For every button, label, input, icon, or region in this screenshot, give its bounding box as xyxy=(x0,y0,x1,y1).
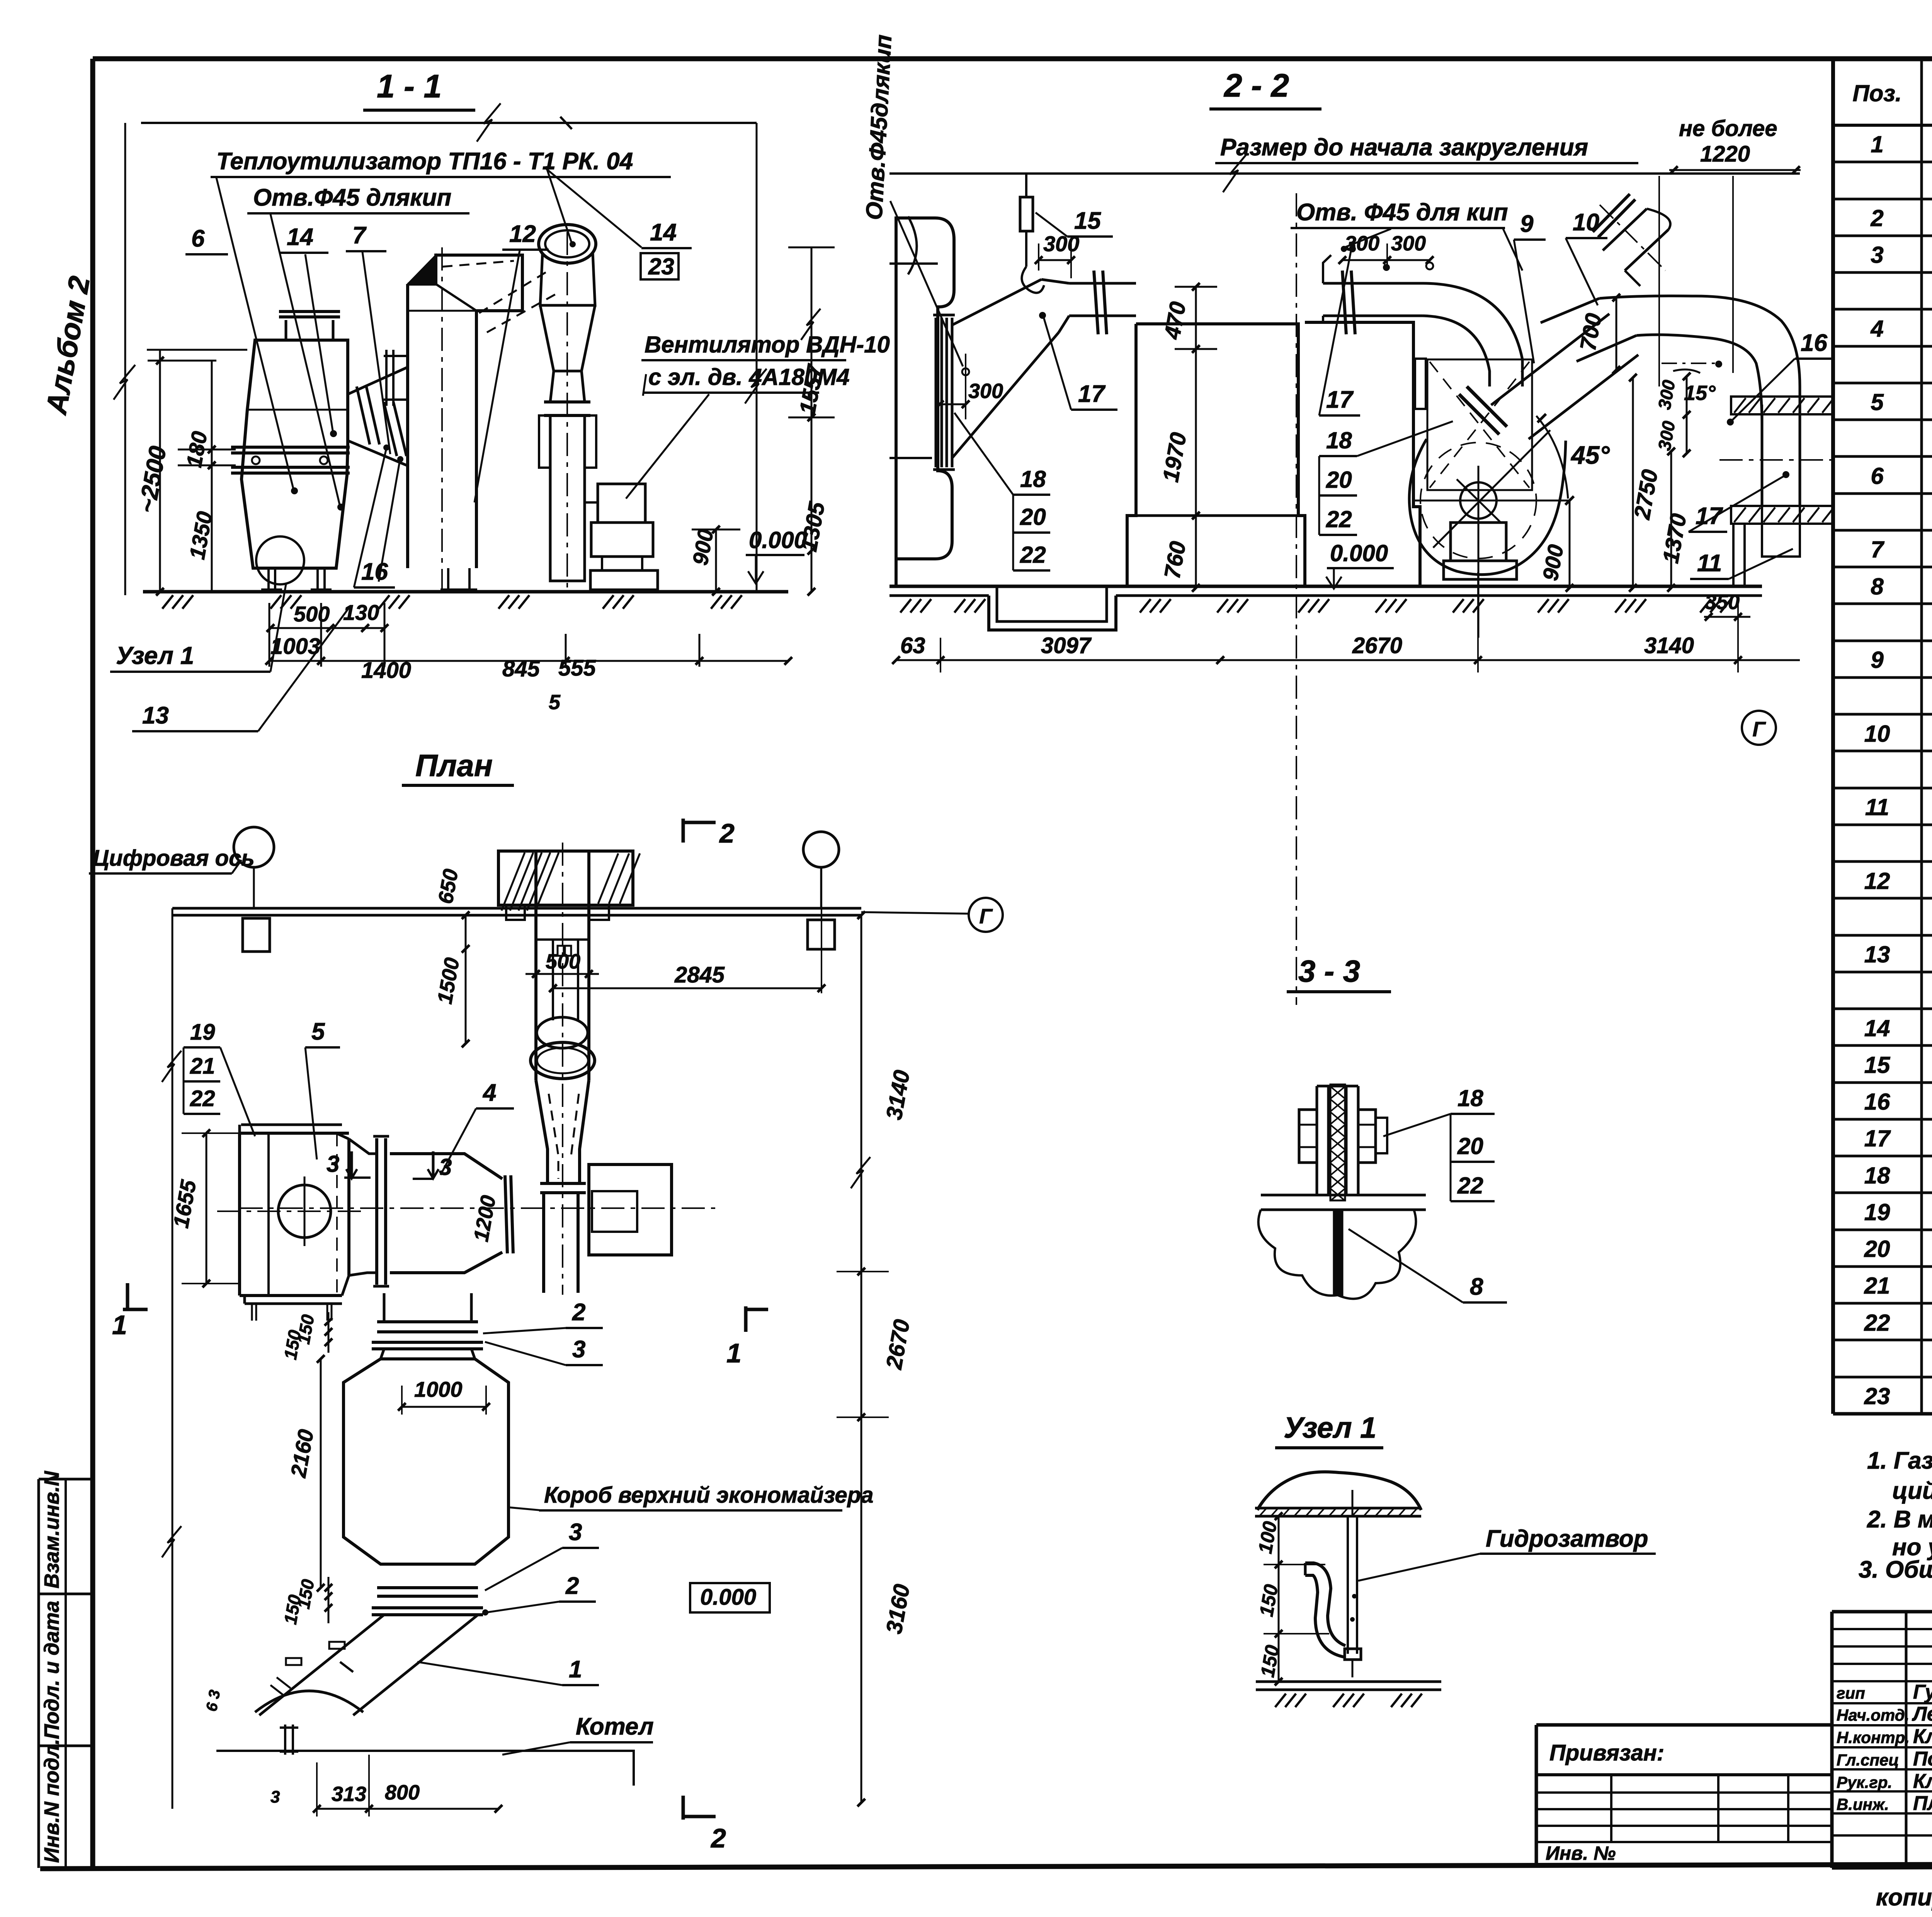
plan economizer octagon xyxy=(344,1359,509,1564)
svg-text:9: 9 xyxy=(1520,211,1534,237)
svg-text:1. Газоходы подлежат теплоизол: 1. Газоходы подлежат теплоизоляции. Ведо… xyxy=(1867,1447,1932,1474)
svg-text:17: 17 xyxy=(1078,381,1105,407)
svg-text:14: 14 xyxy=(650,219,677,246)
svg-text:1: 1 xyxy=(1871,131,1883,157)
notes xyxy=(1859,1447,1932,1583)
svg-text:3 - 3: 3 - 3 xyxy=(1298,954,1360,988)
ground line xyxy=(143,590,788,594)
svg-text:7: 7 xyxy=(1871,536,1884,562)
svg-text:2: 2 xyxy=(710,1823,726,1853)
svg-text:В.инж.: В.инж. xyxy=(1837,1795,1889,1813)
svg-text:23: 23 xyxy=(1864,1383,1890,1409)
svg-text:4: 4 xyxy=(482,1079,496,1106)
svg-text:Гусева: Гусева xyxy=(1913,1681,1932,1703)
svg-text:23: 23 xyxy=(648,254,674,279)
svg-text:17: 17 xyxy=(1864,1125,1891,1151)
svg-text:3: 3 xyxy=(327,1151,339,1177)
svg-text:3140: 3140 xyxy=(1644,633,1694,658)
svg-text:Размер до начала закругления: Размер до начала закругления xyxy=(1220,134,1588,161)
plan machine box xyxy=(240,1133,349,1296)
svg-text:Теплоутилизатор ТП16 - Т1 РК.: Теплоутилизатор ТП16 - Т1 РК. 04 xyxy=(216,148,633,175)
svg-text:22: 22 xyxy=(1020,542,1046,568)
dome cap xyxy=(1257,1472,1421,1510)
section 1-1 xyxy=(110,68,890,731)
svg-text:10: 10 xyxy=(1864,721,1890,747)
svg-text:800: 800 xyxy=(385,1781,420,1804)
svg-text:20: 20 xyxy=(1020,504,1046,530)
svg-text:16: 16 xyxy=(361,558,388,585)
svg-text:3: 3 xyxy=(569,1519,582,1546)
fan and motor xyxy=(539,225,596,263)
teploutilizator body xyxy=(241,340,348,568)
svg-text:Котел: Котел xyxy=(576,1713,654,1740)
diagonal duct xyxy=(1478,342,1604,398)
wall strips xyxy=(1731,397,1833,414)
svg-text:10: 10 xyxy=(1573,209,1599,236)
svg-text:3. Общая масса 2423 кг: 3. Общая масса 2423 кг xyxy=(1859,1556,1932,1583)
svg-text:не более: не более xyxy=(1679,116,1777,141)
svg-text:22: 22 xyxy=(1326,506,1352,532)
svg-text:2: 2 xyxy=(719,818,735,848)
svg-text:2670: 2670 xyxy=(1352,633,1402,658)
svg-text:300: 300 xyxy=(968,380,1003,403)
svg-text:16: 16 xyxy=(1864,1089,1890,1115)
svg-text:Гидрозатвор: Гидрозатвор xyxy=(1486,1525,1648,1552)
svg-text:Вентилятор ВДН-10: Вентилятор ВДН-10 xyxy=(645,332,890,358)
svg-text:18: 18 xyxy=(1458,1085,1483,1111)
svg-text:130: 130 xyxy=(343,600,379,625)
svg-text:16: 16 xyxy=(1801,330,1827,356)
privyazan block xyxy=(1536,1725,1832,1865)
svg-text:2. В месте прохода газохода че: 2. В месте прохода газохода через стену … xyxy=(1867,1506,1932,1533)
svg-text:1003: 1003 xyxy=(270,634,320,659)
svg-text:Подл. и дата: Подл. и дата xyxy=(40,1601,63,1739)
svg-text:15: 15 xyxy=(1864,1052,1891,1078)
svg-text:копировал:: копировал: xyxy=(1876,1884,1932,1911)
svg-text:Инв.N подл.: Инв.N подл. xyxy=(40,1739,63,1863)
svg-text:Отв. Ф45 для кип: Отв. Ф45 для кип xyxy=(1296,199,1508,226)
ground 2-2 xyxy=(889,585,1762,588)
svg-text:Поз.: Поз. xyxy=(1852,80,1901,106)
svg-text:13: 13 xyxy=(1864,941,1890,967)
svg-text:20: 20 xyxy=(1326,467,1352,493)
svg-text:0.000: 0.000 xyxy=(700,1585,756,1610)
svg-text:17: 17 xyxy=(1326,386,1354,413)
svg-text:1400: 1400 xyxy=(361,658,411,683)
svg-text:гип: гип xyxy=(1837,1684,1865,1702)
svg-text:313: 313 xyxy=(332,1783,366,1806)
svg-text:11: 11 xyxy=(1697,550,1722,577)
dim 1557 1305 xyxy=(756,123,758,592)
svg-text:20: 20 xyxy=(1864,1236,1890,1262)
svg-text:20: 20 xyxy=(1457,1133,1483,1159)
elbow duct xyxy=(1422,283,1522,386)
chimney xyxy=(534,851,537,1080)
svg-text:11: 11 xyxy=(1865,794,1889,820)
svg-text:Г: Г xyxy=(1752,718,1766,741)
svg-text:0.000: 0.000 xyxy=(749,527,807,553)
svg-text:3: 3 xyxy=(439,1154,452,1180)
bottom annotations xyxy=(1876,1878,1932,1917)
svg-text:Короб верхний экономайзера: Короб верхний экономайзера xyxy=(544,1483,874,1508)
svg-text:6: 6 xyxy=(1871,463,1884,489)
svg-text:18: 18 xyxy=(1326,427,1352,453)
svg-text:6: 6 xyxy=(191,225,205,252)
svg-text:Клоков: Клоков xyxy=(1913,1725,1932,1748)
wall block xyxy=(498,851,633,905)
svg-text:21: 21 xyxy=(190,1054,215,1079)
svg-text:3: 3 xyxy=(270,1788,280,1806)
svg-text:45°: 45° xyxy=(1570,441,1610,469)
svg-text:ций представлена на листе 4: ций представлена на листе 4. xyxy=(1892,1478,1932,1504)
svg-text:15°: 15° xyxy=(1684,381,1716,405)
svg-text:2845: 2845 xyxy=(674,962,725,987)
svg-text:Портной: Портной xyxy=(1913,1748,1932,1770)
uzel 1 detail xyxy=(1254,1411,1656,1707)
svg-text:22: 22 xyxy=(1864,1310,1890,1336)
svg-text:Взам.инв.N: Взам.инв.N xyxy=(40,1471,63,1588)
plan lower flanges xyxy=(377,1586,478,1589)
svg-text:Плинер: Плинер xyxy=(1913,1792,1932,1815)
svg-text:22: 22 xyxy=(1457,1173,1483,1199)
svg-text:5: 5 xyxy=(549,691,561,714)
bottom dims xyxy=(270,627,384,629)
specification table xyxy=(1833,59,1932,1414)
svg-text:14: 14 xyxy=(287,224,313,250)
title block xyxy=(1832,1612,1932,1868)
pit xyxy=(989,596,1116,630)
svg-text:1: 1 xyxy=(726,1338,742,1368)
plan right chain xyxy=(861,915,862,1803)
svg-text:Цифровая ось: Цифровая ось xyxy=(93,846,255,871)
svg-text:22: 22 xyxy=(190,1086,215,1111)
svg-text:500: 500 xyxy=(546,950,580,973)
uzel 1 circle xyxy=(256,536,304,584)
svg-text:План: План xyxy=(415,748,493,783)
economizer boxes xyxy=(1127,324,1305,585)
plan taper duct xyxy=(390,1154,502,1179)
svg-text:19: 19 xyxy=(1864,1199,1890,1225)
svg-text:300: 300 xyxy=(1391,232,1426,255)
svg-text:12: 12 xyxy=(1864,868,1890,894)
inclined duct xyxy=(348,367,408,466)
bolted joint xyxy=(1316,1086,1318,1195)
svg-text:350: 350 xyxy=(1705,591,1740,614)
svg-text:8: 8 xyxy=(1871,574,1884,599)
axis G xyxy=(1742,711,1776,745)
uzel dims xyxy=(1278,1516,1280,1682)
svg-text:15: 15 xyxy=(1074,208,1101,234)
svg-text:555: 555 xyxy=(558,655,596,681)
svg-text:1 - 1: 1 - 1 xyxy=(377,68,442,104)
svg-text:Инв. №: Инв. № xyxy=(1546,1842,1616,1864)
dims 470 1970 760 xyxy=(1195,287,1197,588)
svg-text:5: 5 xyxy=(311,1018,325,1045)
svg-text:8: 8 xyxy=(1470,1273,1483,1300)
svg-text:Клоков: Клоков xyxy=(1913,1770,1932,1793)
svg-text:2: 2 xyxy=(572,1299,585,1326)
svg-text:500: 500 xyxy=(294,602,330,626)
svg-text:2: 2 xyxy=(565,1573,579,1599)
svg-text:300: 300 xyxy=(1043,232,1079,256)
svg-text:Узел 1: Узел 1 xyxy=(1284,1411,1376,1444)
svg-text:845: 845 xyxy=(502,656,540,681)
svg-text:1: 1 xyxy=(569,1656,582,1683)
svg-text:1220: 1220 xyxy=(1700,141,1750,167)
boiler outline xyxy=(896,218,954,559)
seal pipe xyxy=(1347,1516,1349,1654)
svg-text:3: 3 xyxy=(572,1336,585,1363)
svg-text:13: 13 xyxy=(142,702,169,729)
chain dims 2-2 xyxy=(896,659,1800,661)
plan view xyxy=(89,748,1003,1853)
right elbow xyxy=(1599,296,1800,425)
svg-text:21: 21 xyxy=(1864,1273,1890,1299)
svg-text:14: 14 xyxy=(1864,1015,1890,1041)
duct tower xyxy=(408,284,476,568)
svg-text:9: 9 xyxy=(1871,647,1884,673)
dim ~2500 xyxy=(124,123,126,595)
svg-text:0.000: 0.000 xyxy=(1330,540,1388,566)
svg-text:1: 1 xyxy=(112,1310,127,1340)
svg-text:4: 4 xyxy=(1870,316,1883,342)
svg-text:19: 19 xyxy=(190,1020,215,1045)
svg-text:63: 63 xyxy=(900,633,925,658)
svg-text:18: 18 xyxy=(1020,466,1046,492)
svg-text:Г: Г xyxy=(979,905,993,928)
plan dims upper xyxy=(465,915,467,1044)
svg-text:2: 2 xyxy=(1870,205,1883,231)
svg-text:Привязан:: Привязан: xyxy=(1549,1740,1664,1765)
left margin column xyxy=(39,1471,93,1868)
svg-text:Н.контр.: Н.контр. xyxy=(1837,1728,1910,1747)
hanger 15 xyxy=(1025,174,1027,197)
section marker 2 top xyxy=(682,819,685,843)
axis circles xyxy=(234,827,274,867)
svg-text:12: 12 xyxy=(509,221,536,247)
svg-text:Нач.отд.: Нач.отд. xyxy=(1837,1706,1909,1724)
svg-text:5: 5 xyxy=(1871,389,1884,415)
section 3-3 xyxy=(1259,954,1507,1302)
plan flange strip xyxy=(375,1138,378,1285)
svg-text:Отв.Ф45 длякип: Отв.Ф45 длякип xyxy=(253,184,451,211)
plan lower duct xyxy=(259,1615,384,1715)
svg-text:18: 18 xyxy=(1864,1163,1890,1188)
svg-text:Рук.гр.: Рук.гр. xyxy=(1837,1773,1892,1791)
svg-text:Узел 1: Узел 1 xyxy=(116,642,194,669)
svg-text:7: 7 xyxy=(352,222,367,249)
svg-text:2 - 2: 2 - 2 xyxy=(1223,67,1289,104)
stub pipe xyxy=(1603,209,1668,271)
rising duct xyxy=(952,279,1041,325)
section 2-2 xyxy=(861,34,1834,1005)
flange band xyxy=(231,446,350,449)
svg-text:Лепендин: Лепендин xyxy=(1912,1703,1932,1725)
svg-text:1000: 1000 xyxy=(414,1377,463,1401)
svg-text:3: 3 xyxy=(1871,242,1883,268)
boiler flange stack xyxy=(935,318,937,467)
svg-text:3097: 3097 xyxy=(1041,633,1092,658)
svg-text:Гл.спец: Гл.спец xyxy=(1837,1751,1899,1769)
